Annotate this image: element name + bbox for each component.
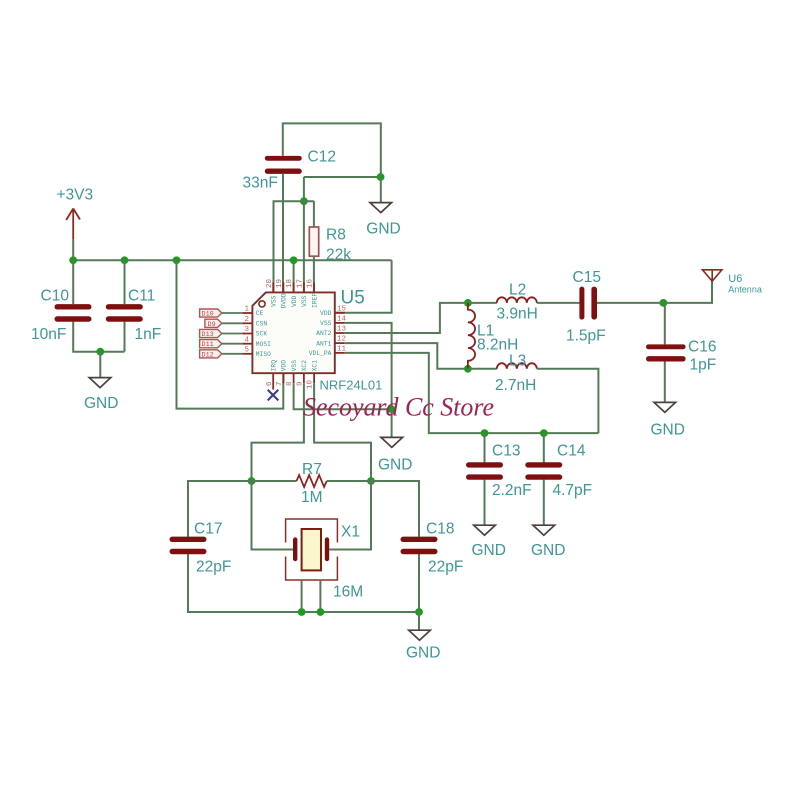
capacitor C11 <box>106 287 161 343</box>
wire crystal right lead <box>329 481 371 550</box>
svg-text:VSS: VSS <box>270 295 277 307</box>
wire flag D12 to pin5 <box>222 353 243 355</box>
pin 8 VSS bottom <box>286 360 298 386</box>
wire C10 top lead <box>72 260 74 304</box>
wire flag D9 to pin2 <box>222 322 243 324</box>
antenna U6 <box>702 270 761 295</box>
wire L3 to right loop down <box>537 369 599 433</box>
svg-text:22k: 22k <box>326 246 351 263</box>
junction pin18 rail <box>290 256 298 264</box>
svg-text:R8: R8 <box>326 226 346 243</box>
svg-text:1M: 1M <box>301 489 323 506</box>
wire C11 top lead <box>124 260 126 304</box>
svg-text:C18: C18 <box>426 520 454 537</box>
svg-text:IRQ: IRQ <box>270 360 277 372</box>
svg-text:NRF24L01: NRF24L01 <box>320 377 383 392</box>
wire L2 left lead <box>468 302 497 304</box>
wire pin11 VDD_PA row <box>345 353 599 433</box>
pin 18 VDD top <box>286 279 298 307</box>
svg-text:ANT1: ANT1 <box>316 340 331 347</box>
svg-text:Secoyard Cc Store: Secoyard Cc Store <box>303 393 494 422</box>
svg-text:L3: L3 <box>509 353 526 370</box>
inductor L3 <box>495 353 537 394</box>
svg-text:CSN: CSN <box>256 321 268 328</box>
svg-text:33nF: 33nF <box>243 174 278 191</box>
flag D10 <box>200 309 222 319</box>
wire rail to pin15 <box>335 260 392 313</box>
svg-text:1: 1 <box>244 306 249 314</box>
pin 6 IRQ bottom <box>266 360 278 390</box>
svg-text:VSS: VSS <box>291 360 298 372</box>
svg-text:6: 6 <box>266 381 274 386</box>
svg-text:8.2nH: 8.2nH <box>477 336 518 353</box>
svg-text:Antenna: Antenna <box>728 285 762 295</box>
wire C16 bottom lead <box>664 362 666 403</box>
wire R8 top stem <box>313 201 315 227</box>
svg-text:GND: GND <box>472 542 506 559</box>
svg-text:1pF: 1pF <box>690 356 717 373</box>
op-amp U5 body NRF24L01 <box>252 287 382 392</box>
svg-text:GND: GND <box>651 421 685 438</box>
power symbol +3V3 <box>57 187 94 239</box>
svg-text:CE: CE <box>256 310 264 317</box>
wire VDD loop to pin7 <box>177 260 284 408</box>
junction L1 bottom <box>464 365 472 373</box>
svg-text:C11: C11 <box>128 287 155 304</box>
wire pin9 XC2 to R7 left <box>252 383 304 481</box>
capacitor C10 <box>31 287 92 343</box>
capacitor C18 <box>401 520 464 575</box>
junction R7 right <box>367 477 375 485</box>
pin 2 CSN <box>242 316 267 328</box>
wire crystal left lead <box>252 481 294 550</box>
svg-text:GND: GND <box>378 457 412 474</box>
svg-text:4: 4 <box>244 336 249 344</box>
wire R8 node left branch to pin20 <box>274 201 314 292</box>
svg-text:VDD: VDD <box>320 310 332 317</box>
svg-text:D9: D9 <box>208 321 216 329</box>
ground C13 <box>472 525 506 559</box>
svg-text:7: 7 <box>276 381 284 386</box>
wire C14 top lead <box>543 433 545 462</box>
junction gnd-left <box>96 348 104 356</box>
pin 5 MISO <box>242 346 271 358</box>
pin 14 VSS <box>320 316 346 328</box>
svg-text:C16: C16 <box>688 338 716 355</box>
junction loop-left <box>173 256 181 264</box>
svg-text:D13: D13 <box>202 331 214 339</box>
junction VSS gnd mid <box>388 405 396 413</box>
pin 10 XC1 bottom <box>307 360 319 389</box>
ground top <box>366 203 400 238</box>
pin 11 VDD_PA <box>309 346 347 358</box>
junction case pin right <box>317 608 325 616</box>
svg-text:22pF: 22pF <box>196 558 231 575</box>
wire R8 bottom to pin16 <box>313 256 315 292</box>
flag D9 <box>205 319 222 329</box>
wire R7 right to C18 top <box>327 481 419 537</box>
wire gnd-top stem <box>380 177 382 203</box>
inductor L1 <box>468 303 518 369</box>
svg-text:D12: D12 <box>202 351 214 359</box>
svg-text:SCK: SCK <box>256 331 268 338</box>
wire pin17 drop <box>303 201 305 292</box>
flag D11 <box>200 340 222 350</box>
svg-text:16: 16 <box>307 278 315 288</box>
svg-text:R7: R7 <box>302 461 322 478</box>
junction C14 <box>540 429 548 437</box>
wire C16 top lead <box>664 303 666 345</box>
wire vss junction drop <box>303 177 305 201</box>
ground C16 <box>651 402 685 438</box>
junction R8 node <box>300 197 308 205</box>
svg-text:U6: U6 <box>728 273 742 285</box>
wire L2 to C15 <box>537 302 580 304</box>
svg-text:C14: C14 <box>557 442 586 459</box>
junction case pin left <box>298 608 306 616</box>
pin 7 VDD bottom <box>276 360 288 386</box>
wire flag D11 to pin4 <box>222 343 243 345</box>
wire pin13 ANT2 to L2 row <box>345 303 468 333</box>
svg-text:GND: GND <box>406 644 440 661</box>
capacitor C14 <box>525 442 592 499</box>
junction C11 rail <box>121 256 129 264</box>
svg-text:VDD: VDD <box>291 295 298 307</box>
capacitor C12 <box>243 148 336 191</box>
svg-text:5: 5 <box>244 346 249 354</box>
svg-text:ANT2: ANT2 <box>316 330 331 337</box>
svg-text:C15: C15 <box>573 269 601 286</box>
pin 16 IREF top <box>307 278 319 308</box>
svg-text:C17: C17 <box>194 520 222 537</box>
svg-text:1nF: 1nF <box>135 326 162 343</box>
svg-text:17: 17 <box>297 279 305 288</box>
svg-text:C10: C10 <box>41 287 70 304</box>
wire pin8 VSS to gnd <box>294 383 392 409</box>
wire gnd-top horizontal <box>304 176 381 178</box>
junction antenna node <box>660 299 668 307</box>
svg-text:18: 18 <box>286 279 294 288</box>
resistor R7 <box>297 461 327 506</box>
ground C14 <box>531 525 565 559</box>
svg-text:16M: 16M <box>333 583 363 600</box>
wire crystal case pin left <box>301 580 303 612</box>
junction L1 top <box>464 299 472 307</box>
wire flag D10 to pin1 <box>222 312 243 314</box>
wire C13 bottom lead <box>484 480 486 526</box>
svg-text:GND: GND <box>531 542 565 559</box>
wire pin10 XC1 to R7 right <box>314 383 371 481</box>
junction C13 <box>481 429 489 437</box>
svg-text:VSS: VSS <box>320 320 332 327</box>
svg-text:20: 20 <box>266 278 274 288</box>
svg-text:VSS: VSS <box>301 295 308 307</box>
wire gnd-left stem <box>99 352 101 378</box>
junction gnd-top <box>377 173 385 181</box>
pin 15 VDD <box>320 305 346 317</box>
svg-text:XC2: XC2 <box>301 360 308 372</box>
svg-text:XC1: XC1 <box>311 360 318 372</box>
pin 1 CE <box>242 306 263 318</box>
svg-text:D11: D11 <box>202 341 214 349</box>
svg-text:X1: X1 <box>341 523 360 540</box>
capacitor C15 <box>566 269 606 344</box>
wire flag D13 to pin3 <box>222 333 243 335</box>
svg-text:12: 12 <box>337 336 346 344</box>
svg-text:3.9nH: 3.9nH <box>497 306 538 323</box>
svg-text:VDL_PA: VDL_PA <box>309 350 332 357</box>
wire C14 bottom lead <box>543 480 545 526</box>
svg-text:DVDD: DVDD <box>281 293 288 308</box>
ground left <box>84 378 118 412</box>
wire C10 bottom lead <box>73 322 124 352</box>
svg-text:GND: GND <box>366 221 400 238</box>
svg-text:22pF: 22pF <box>428 558 463 575</box>
junction R7 left <box>248 477 256 485</box>
crystal X1 <box>286 519 364 600</box>
svg-text:3: 3 <box>244 326 249 334</box>
flag D13 <box>200 329 222 339</box>
svg-text:C12: C12 <box>308 148 336 165</box>
svg-text:D10: D10 <box>202 311 214 319</box>
capacitor C13 <box>466 442 532 499</box>
svg-text:C13: C13 <box>492 442 520 459</box>
pin 17 VSS top <box>297 279 309 307</box>
wire C12 bottom to pin19 <box>282 174 284 293</box>
wire +3V3 rail <box>73 259 391 261</box>
svg-text:19: 19 <box>276 279 284 288</box>
pin 4 MOSI <box>242 336 271 348</box>
wire bottom gnd stem <box>418 612 420 630</box>
wire pin18 power <box>293 260 295 292</box>
no-connect X pin6 <box>268 390 279 401</box>
svg-text:L2: L2 <box>509 281 526 298</box>
inductor L2 <box>497 281 538 322</box>
capacitor C17 <box>170 520 232 575</box>
pin 9 XC2 bottom <box>297 360 309 386</box>
junction bottom gnd <box>415 608 423 616</box>
wire C12 top gnd loop <box>283 123 381 177</box>
ground mid <box>378 437 412 473</box>
svg-text:1.5pF: 1.5pF <box>566 327 606 344</box>
wire C17 top row <box>188 481 297 537</box>
pin 12 ANT1 <box>316 336 346 348</box>
wire C15 to antenna node <box>597 302 663 304</box>
pin 19 DVDD top <box>276 279 288 309</box>
wire pin12 ANT1 to L3 row <box>345 343 468 369</box>
svg-text:2.2nF: 2.2nF <box>492 482 532 499</box>
svg-text:15: 15 <box>337 305 347 313</box>
svg-text:IREF: IREF <box>311 293 318 308</box>
pin 20 VSS top <box>266 278 278 307</box>
svg-text:4.7pF: 4.7pF <box>553 482 593 499</box>
svg-text:GND: GND <box>84 395 118 412</box>
wire gnd mid stem <box>391 409 393 437</box>
junction rail-left <box>69 256 77 264</box>
svg-text:10nF: 10nF <box>31 326 66 343</box>
pin 13 ANT2 <box>316 326 346 338</box>
wire pin14 VSS to gnd <box>345 323 392 409</box>
svg-text:MISO: MISO <box>256 351 271 358</box>
wire bottom rail <box>188 554 419 612</box>
flag D12 <box>200 350 222 360</box>
wire antenna riser <box>663 280 712 303</box>
wire +3V3 stem <box>72 239 74 260</box>
wire C13 top lead <box>484 433 486 462</box>
svg-text:VDD: VDD <box>281 360 288 372</box>
capacitor C16 <box>646 338 716 373</box>
svg-text:2: 2 <box>244 316 249 324</box>
wire C11 bottom lead <box>124 322 126 352</box>
ground bottom <box>406 630 440 661</box>
wire L3 left lead <box>468 368 497 370</box>
resistor R8 <box>309 226 351 263</box>
svg-text:2.7nH: 2.7nH <box>495 377 536 394</box>
pin 3 SCK <box>242 326 267 338</box>
svg-text:+3V3: +3V3 <box>57 187 94 204</box>
wire crystal case pin right <box>319 580 321 612</box>
svg-text:MOSI: MOSI <box>256 341 271 348</box>
